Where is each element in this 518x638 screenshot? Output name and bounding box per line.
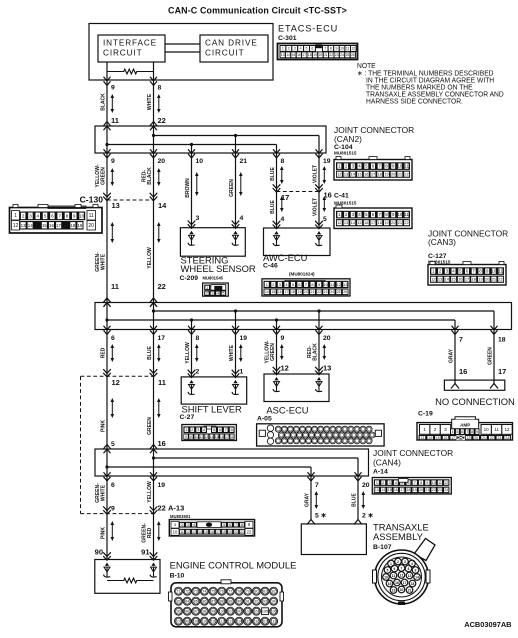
svg-text:BLACK: BLACK: [312, 343, 318, 361]
wire RED-BLACK joint pin20 to ASC-ECU pin13: [307, 330, 332, 375]
wire GREEN-WHITE C-130 pin13 to joint pin11: [95, 200, 119, 307]
svg-text:20: 20: [88, 223, 94, 229]
svg-text:5 ∗: 5 ∗: [315, 513, 327, 520]
svg-text:15: 15: [271, 290, 275, 294]
svg-text:VIOLET: VIOLET: [312, 164, 318, 183]
svg-text:20: 20: [474, 436, 478, 440]
svg-text:16: 16: [210, 530, 214, 534]
svg-text:YELLOW: YELLOW: [147, 246, 153, 268]
wire BROWN joint CAN2 pin10 to steering wheel sensor pin3: [185, 153, 204, 228]
svg-text:CIRCUIT: CIRCUIT: [205, 49, 245, 58]
svg-text:17: 17: [371, 220, 375, 225]
svg-text:8: 8: [241, 523, 243, 527]
svg-text:GREEN: GREEN: [229, 179, 235, 197]
connector C-130 icon: [10, 205, 103, 234]
svg-text:8: 8: [158, 85, 162, 92]
svg-text:104: 104: [253, 610, 259, 614]
svg-text:12: 12: [199, 435, 203, 439]
svg-text:19: 19: [478, 277, 482, 282]
svg-text:AMP: AMP: [460, 423, 470, 428]
svg-text:9: 9: [111, 158, 115, 165]
svg-text:3: 3: [404, 560, 406, 564]
svg-text:INTERFACE: INTERFACE: [103, 39, 157, 48]
svg-text:1: 1: [240, 369, 244, 376]
dashed harness boundary box: [81, 376, 154, 513]
svg-text:15: 15: [42, 223, 47, 228]
svg-text:21: 21: [324, 53, 328, 57]
svg-text:20: 20: [419, 488, 423, 492]
svg-text:11: 11: [330, 282, 334, 287]
svg-text:19: 19: [313, 53, 317, 57]
svg-text:1: 1: [423, 427, 426, 432]
svg-text:RED: RED: [100, 348, 106, 359]
svg-text:21: 21: [398, 220, 402, 225]
svg-text:2: 2: [397, 560, 399, 564]
svg-text:7: 7: [466, 430, 468, 434]
svg-text:13: 13: [408, 574, 412, 578]
drawing number: [464, 620, 511, 629]
svg-text:YELLOW: YELLOW: [147, 480, 153, 502]
svg-text:WHITE: WHITE: [147, 94, 153, 111]
svg-text:116: 116: [254, 620, 260, 624]
AWC-ECU box: [264, 221, 331, 256]
svg-text:17: 17: [451, 436, 455, 440]
svg-text:25: 25: [337, 290, 341, 294]
svg-text:12: 12: [337, 282, 341, 287]
svg-text:14: 14: [210, 435, 214, 439]
svg-text:11: 11: [438, 481, 442, 485]
wire YELLOW C-130 pin14 to joint pin22: [147, 200, 166, 307]
svg-text:GREEN: GREEN: [100, 167, 106, 185]
svg-text:7: 7: [305, 282, 307, 287]
svg-text:8: 8: [471, 430, 473, 434]
svg-text:C-46: C-46: [263, 263, 278, 270]
svg-text:80: 80: [254, 590, 258, 594]
ETACS-ECU outer box: [89, 24, 273, 81]
svg-text:2: 2: [196, 369, 200, 376]
wire GREEN joint CAN2 pin21 to steering wheel sensor pin4: [229, 153, 248, 228]
svg-text:6: 6: [394, 567, 396, 571]
svg-text:WHITE: WHITE: [100, 485, 106, 502]
svg-text:17: 17: [498, 367, 506, 376]
svg-text:19: 19: [240, 335, 248, 342]
svg-text:22: 22: [404, 220, 408, 225]
AWC-ECU label: [263, 252, 315, 276]
svg-text:22: 22: [158, 504, 166, 513]
svg-text:22: 22: [329, 53, 333, 57]
svg-text:20: 20: [319, 53, 323, 57]
connector A-13 icon: [169, 520, 254, 537]
svg-text:71: 71: [177, 590, 181, 594]
svg-text:19: 19: [392, 588, 396, 592]
svg-text:10: 10: [397, 164, 402, 169]
svg-text:24: 24: [444, 488, 448, 492]
svg-text:2: 2: [206, 292, 208, 296]
wire GREEN joint pin18 to no-connection pin17: [487, 330, 506, 384]
svg-text:PINK: PINK: [100, 420, 106, 432]
svg-text:13: 13: [344, 220, 348, 225]
svg-text:19: 19: [298, 290, 302, 294]
svg-text:16: 16: [458, 277, 462, 282]
svg-text:12: 12: [504, 427, 510, 432]
svg-text:20: 20: [158, 158, 166, 165]
svg-text:C-301: C-301: [278, 35, 297, 42]
svg-text:3: 3: [187, 523, 189, 527]
engine control module box: [95, 552, 160, 593]
svg-text:13: 13: [204, 435, 208, 439]
svg-text:13: 13: [375, 488, 379, 492]
svg-text:7: 7: [315, 482, 319, 489]
svg-text:12: 12: [112, 378, 120, 387]
svg-text:19: 19: [158, 482, 166, 489]
svg-text:14: 14: [428, 436, 432, 440]
svg-text:4: 4: [37, 214, 40, 219]
shift lever box: [181, 370, 247, 404]
svg-text:4: 4: [411, 562, 413, 566]
svg-text:11: 11: [404, 164, 409, 169]
svg-text:107: 107: [176, 620, 182, 624]
svg-text:8: 8: [281, 158, 285, 165]
svg-text:IN THE CIRCUIT DIAGRAM AGREE W: IN THE CIRCUIT DIAGRAM AGREE WITH: [366, 77, 494, 84]
svg-text:18: 18: [291, 290, 295, 294]
svg-text:91: 91: [141, 548, 149, 557]
svg-text:JOINT CONNECTOR: JOINT CONNECTOR: [373, 448, 453, 458]
svg-text:4: 4: [300, 47, 302, 51]
svg-text:16: 16: [49, 223, 54, 228]
svg-text:5: 5: [223, 523, 225, 527]
svg-text:9: 9: [318, 282, 320, 287]
svg-text:10: 10: [189, 435, 193, 439]
svg-text:17: 17: [400, 488, 404, 492]
svg-text:7: 7: [324, 47, 326, 51]
svg-text:RED: RED: [147, 528, 153, 539]
svg-text:15: 15: [388, 488, 392, 492]
svg-text:13: 13: [21, 223, 26, 228]
svg-text:A-13: A-13: [168, 504, 184, 513]
svg-text:11: 11: [89, 213, 94, 219]
svg-text:19: 19: [413, 488, 417, 492]
svg-text:5: 5: [111, 441, 115, 448]
svg-text:86: 86: [202, 600, 206, 604]
engine control module label: [170, 560, 297, 580]
svg-text:5: 5: [323, 216, 327, 223]
svg-text:∗ : THE TERMINAL NUMBERS DESCR: ∗ : THE TERMINAL NUMBERS DESCRIBED: [357, 70, 494, 77]
svg-text:95: 95: [177, 610, 181, 614]
svg-text:7: 7: [225, 427, 227, 432]
svg-text:21: 21: [492, 277, 496, 282]
svg-text:C-27: C-27: [180, 414, 195, 421]
svg-text:WHITE: WHITE: [229, 345, 235, 362]
svg-text:3: 3: [444, 427, 447, 432]
svg-text:3: 3: [196, 215, 200, 222]
svg-text:15: 15: [388, 582, 392, 586]
svg-text:10: 10: [173, 529, 178, 534]
svg-text:8: 8: [196, 335, 200, 342]
svg-text:15: 15: [357, 172, 361, 177]
svg-text:108: 108: [184, 620, 190, 624]
svg-text:21: 21: [311, 290, 315, 294]
svg-text:21: 21: [398, 172, 402, 177]
svg-text:TRANSAXLE ASSEMBLY CONNECTOR A: TRANSAXLE ASSEMBLY CONNECTOR AND: [366, 91, 504, 98]
svg-text:4: 4: [240, 215, 244, 222]
svg-text:C-209: C-209: [180, 275, 199, 282]
svg-text:17: 17: [158, 335, 166, 342]
svg-text:(CAN4): (CAN4): [373, 458, 401, 468]
svg-text:18: 18: [378, 220, 382, 225]
wire VIOLET joint CAN2 pin19 to C-41 pin16: [312, 153, 331, 192]
svg-text:7: 7: [401, 566, 403, 570]
svg-text:18: 18: [411, 582, 415, 586]
svg-text:8: 8: [66, 214, 69, 219]
svg-text:78: 78: [237, 590, 241, 594]
svg-text:GRAY: GRAY: [448, 349, 454, 363]
svg-text:23: 23: [335, 53, 339, 57]
svg-text:9: 9: [426, 481, 428, 485]
svg-text:98: 98: [202, 610, 206, 614]
connector C-127 icon: [428, 262, 506, 286]
wire BLUE C-41 pin17 to AWC-ECU pin4: [270, 192, 285, 229]
svg-text:1: 1: [206, 286, 208, 290]
svg-text:(CAN3): (CAN3): [428, 237, 456, 247]
svg-text:1: 1: [14, 213, 17, 219]
transaxle assembly box: [301, 524, 366, 555]
svg-text:24: 24: [330, 290, 334, 294]
svg-text:5: 5: [456, 430, 458, 434]
svg-text:15: 15: [292, 53, 296, 57]
svg-text:6: 6: [229, 523, 231, 527]
wire RED-BLACK joint CAN2 pin20 to C-130 pin14: [141, 153, 165, 200]
svg-text:21: 21: [425, 488, 429, 492]
svg-text:2: 2: [382, 480, 384, 485]
connector A-14 icon: [372, 478, 451, 495]
svg-text:12: 12: [351, 47, 355, 51]
svg-text:9: 9: [73, 214, 76, 219]
svg-text:1: 1: [266, 282, 268, 287]
svg-text:PINK: PINK: [100, 527, 106, 539]
svg-text:11: 11: [494, 427, 499, 432]
svg-text:2: 2: [288, 47, 290, 51]
svg-text:3: 3: [389, 480, 391, 485]
svg-text:73: 73: [194, 590, 198, 594]
svg-text:11: 11: [404, 212, 409, 217]
svg-text:11: 11: [498, 269, 503, 274]
svg-text:BROWN: BROWN: [185, 178, 191, 198]
svg-text:20: 20: [362, 482, 370, 489]
svg-text:(MU801624): (MU801624): [289, 271, 315, 276]
svg-text:4: 4: [452, 430, 454, 434]
no connection label: [435, 396, 515, 407]
svg-text:2: 2: [181, 523, 183, 527]
svg-text:A-14: A-14: [373, 469, 388, 476]
svg-text:111: 111: [210, 620, 215, 624]
svg-text:3: 3: [294, 47, 296, 51]
svg-text:10: 10: [484, 427, 490, 432]
svg-text:22: 22: [158, 282, 166, 291]
svg-text:13: 13: [323, 364, 331, 373]
svg-text:13: 13: [438, 277, 442, 282]
joint connector CAN3 label: [428, 228, 508, 264]
svg-text:5: 5: [387, 568, 389, 572]
wire BLUE joint CAN4 pin20 to transaxle pin2: [351, 476, 374, 525]
wire YELLOW joint pin19 to in-line A-13 pin22: [147, 476, 166, 514]
svg-text:24: 24: [340, 53, 344, 57]
svg-text:18: 18: [70, 223, 75, 228]
svg-text:91: 91: [246, 600, 250, 604]
svg-text:8: 8: [330, 47, 332, 51]
wire BLUE joint CAN2 pin8 to C-41 pin17: [270, 153, 285, 192]
svg-text:BLACK: BLACK: [147, 167, 153, 185]
svg-text:14: 14: [381, 488, 385, 492]
svg-text:3: 3: [29, 214, 32, 219]
connector C-209 icon: [203, 283, 229, 296]
svg-text:114: 114: [236, 620, 242, 624]
svg-text:87: 87: [211, 600, 215, 604]
svg-text:1: 1: [282, 47, 284, 51]
svg-text:12: 12: [400, 573, 404, 577]
svg-text:6: 6: [111, 482, 115, 489]
svg-text:2: 2: [272, 282, 274, 287]
connector A-05 icon: [257, 424, 385, 446]
svg-text:17: 17: [302, 53, 306, 57]
svg-text:22: 22: [498, 277, 502, 282]
svg-text:5: 5: [213, 427, 215, 432]
svg-text:1: 1: [376, 480, 378, 485]
svg-text:7: 7: [235, 523, 237, 527]
svg-text:115: 115: [245, 620, 251, 624]
svg-text:105: 105: [262, 610, 268, 614]
ASC-ECU label: [257, 405, 309, 423]
wire YELLOW joint pin8 to shift lever pin2: [185, 330, 200, 377]
svg-text:17: 17: [371, 172, 375, 177]
steering wheel sensor box: [180, 221, 245, 257]
svg-text:20: 20: [304, 290, 308, 294]
svg-text:15: 15: [215, 435, 219, 439]
svg-text:C-130: C-130: [80, 195, 104, 205]
svg-text:14: 14: [158, 201, 167, 210]
svg-text:BLUE: BLUE: [147, 346, 153, 360]
in-line connector C-41 dashed junction: [273, 184, 357, 205]
svg-text:15: 15: [451, 277, 455, 282]
svg-text:9: 9: [476, 430, 478, 434]
svg-text:13: 13: [281, 53, 285, 57]
terminating resistor inside ETACS-ECU: [107, 62, 154, 80]
svg-text:109: 109: [193, 620, 199, 624]
svg-text:16: 16: [158, 439, 166, 448]
svg-text:VIOLET: VIOLET: [312, 197, 318, 216]
svg-text:C-19: C-19: [418, 411, 433, 418]
wire YELLOW-GREEN joint CAN2 pin9 to C-130 pin13: [95, 153, 115, 200]
svg-text:90: 90: [237, 600, 241, 604]
svg-text:3: 3: [279, 282, 281, 287]
svg-text:16: 16: [278, 290, 282, 294]
svg-text:16: 16: [297, 53, 301, 57]
svg-text:5: 5: [44, 214, 47, 219]
svg-text:13: 13: [344, 172, 348, 177]
svg-text:81: 81: [263, 590, 267, 594]
interface circuit box: [98, 35, 165, 62]
svg-text:11: 11: [180, 530, 184, 534]
svg-text:79: 79: [246, 590, 250, 594]
svg-text:ASC-ECU: ASC-ECU: [266, 405, 308, 416]
svg-text:NOTE: NOTE: [357, 63, 376, 70]
svg-text:15: 15: [436, 436, 440, 440]
connector B-107 round icon: [373, 539, 436, 605]
svg-text:13: 13: [112, 201, 120, 210]
svg-text:14: 14: [28, 223, 33, 228]
ETACS-ECU label: [278, 23, 338, 42]
svg-text:11: 11: [111, 282, 119, 291]
wire PINK in-line pin12 to joint CAN4 pin5: [100, 376, 115, 453]
svg-text:101: 101: [227, 610, 233, 614]
svg-text:89: 89: [228, 600, 232, 604]
svg-text:CAN DRIVE: CAN DRIVE: [205, 39, 258, 48]
svg-text:GREEN: GREEN: [487, 347, 493, 365]
svg-text:100: 100: [219, 610, 225, 614]
svg-text:WHITE: WHITE: [100, 254, 106, 271]
joint connector CAN3 bus band: [95, 298, 512, 334]
svg-text:YELLOW: YELLOW: [185, 341, 191, 363]
svg-text:85: 85: [194, 600, 198, 604]
svg-text:18: 18: [308, 53, 312, 57]
svg-text:19: 19: [467, 436, 471, 440]
svg-text:20: 20: [400, 588, 404, 592]
connector C-19 icon: [417, 417, 513, 441]
svg-text:6: 6: [219, 427, 221, 432]
svg-text:6: 6: [51, 214, 54, 219]
svg-text:9: 9: [111, 85, 115, 92]
svg-text:18: 18: [498, 337, 506, 344]
svg-text:21: 21: [482, 436, 486, 440]
svg-text:12: 12: [444, 481, 448, 485]
svg-text:ASSEMBLY: ASSEMBLY: [373, 531, 424, 542]
svg-text:117: 117: [262, 620, 268, 624]
svg-text:18: 18: [230, 435, 234, 439]
svg-text:19: 19: [323, 158, 331, 165]
svg-text:23: 23: [438, 488, 442, 492]
svg-text:GREEN: GREEN: [147, 417, 153, 435]
title CAN-C Communication Circuit: [168, 6, 347, 16]
svg-text:17: 17: [216, 530, 220, 534]
joint connector CAN2 label: [334, 125, 414, 155]
svg-text:22: 22: [404, 172, 408, 177]
svg-text:103: 103: [245, 610, 251, 614]
joint connector CAN4 label: [373, 448, 453, 476]
svg-text:26: 26: [343, 290, 347, 294]
svg-text:94: 94: [272, 600, 276, 604]
svg-text:8: 8: [311, 282, 313, 287]
svg-text:25: 25: [346, 53, 350, 57]
svg-text:6: 6: [461, 430, 463, 434]
connector C-301 icon: [278, 44, 358, 60]
svg-text:75: 75: [211, 590, 215, 594]
svg-text:9: 9: [281, 335, 285, 342]
svg-text:93: 93: [263, 600, 267, 604]
note text: [357, 63, 504, 106]
svg-text:4: 4: [217, 292, 219, 296]
svg-text:14: 14: [265, 290, 269, 294]
svg-text:92: 92: [254, 600, 258, 604]
svg-text:9: 9: [111, 506, 115, 513]
svg-text:96: 96: [185, 610, 189, 614]
svg-text:72: 72: [185, 590, 189, 594]
svg-text:2: 2: [22, 214, 25, 219]
svg-text:21: 21: [240, 158, 248, 165]
svg-text:22: 22: [247, 529, 252, 534]
svg-text:10: 10: [340, 47, 344, 51]
svg-text:1: 1: [185, 427, 187, 432]
svg-text:2: 2: [191, 427, 193, 432]
svg-text:24: 24: [505, 436, 509, 440]
